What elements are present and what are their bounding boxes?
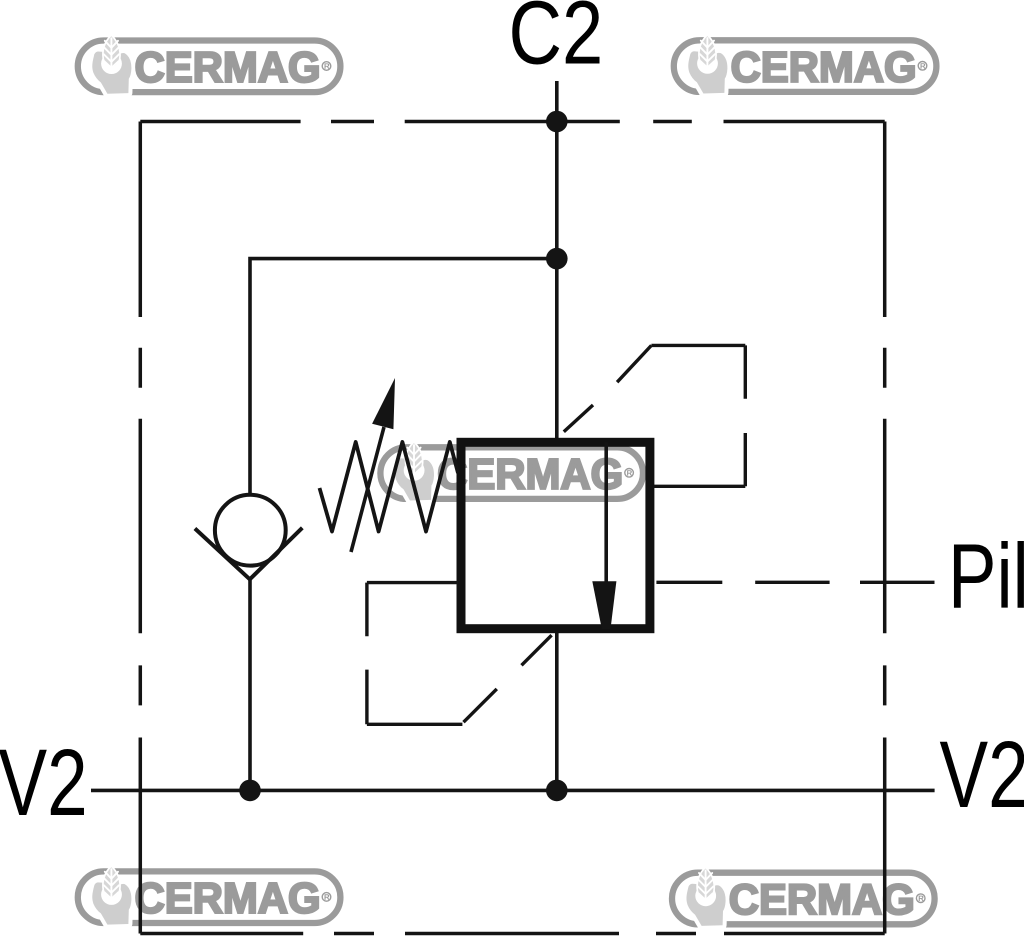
check valve CV1 ball circle	[215, 495, 286, 566]
valve internal flow arrowhead	[592, 581, 616, 629]
valve internal flow line	[604, 442, 608, 584]
pilot line upper diagonal dash a	[564, 405, 593, 432]
svg-text:Pil: Pil	[948, 524, 1024, 627]
CERMAG watermark logo top-left	[78, 36, 341, 93]
pilot line upper diagonal dash b	[617, 345, 651, 382]
svg-text:V2: V2	[940, 720, 1024, 827]
pilot line lower horizontal from valve	[367, 581, 458, 584]
CERMAG watermark logo top-right	[674, 36, 937, 93]
pilot line upper horizontal	[651, 344, 745, 347]
CERMAG watermark logo bottom-left	[78, 867, 341, 924]
enclosure border bottom edge (chain line)	[140, 932, 884, 936]
junction node C2/branch	[546, 248, 568, 270]
pilot line upper return to valve	[654, 485, 745, 488]
svg-text:C2: C2	[509, 0, 604, 83]
wire C2 vertical upper	[555, 81, 559, 438]
counterbalance valve body U1	[461, 442, 650, 628]
pilot port dashed line Pil	[656, 581, 934, 584]
spring	[320, 442, 459, 532]
junction node C2/border	[546, 111, 568, 133]
pilot line lower diagonal dash b	[522, 635, 552, 665]
pilot line lower bottom horizontal	[367, 723, 463, 726]
enclosure border right edge (chain line)	[883, 122, 887, 934]
wire V2 rail	[91, 789, 935, 793]
enclosure border top edge (chain line)	[140, 120, 884, 124]
pilot line upper vertical dashes	[744, 345, 747, 486]
check valve CV1 seat	[195, 528, 302, 580]
svg-text:V2: V2	[0, 728, 88, 835]
junction node C2/V2 rail	[546, 780, 568, 802]
wire branch horizontal to check valve	[250, 259, 557, 495]
pilot line lower diagonal dash a	[464, 689, 497, 722]
wire check valve to V2 rail	[248, 579, 252, 790]
spring adjustment arrow shaft	[351, 427, 384, 552]
CERMAG watermark logo center	[380, 443, 643, 500]
junction node check-valve/V2 rail	[239, 780, 261, 802]
CERMAG watermark logo bottom-right	[672, 869, 935, 926]
pilot line lower vertical dashes	[365, 583, 368, 725]
enclosure border left edge (chain line)	[139, 122, 143, 934]
wire C2 vertical lower (box bottom to V2 rail)	[555, 633, 559, 790]
spring adjustment arrowhead	[372, 378, 395, 429]
